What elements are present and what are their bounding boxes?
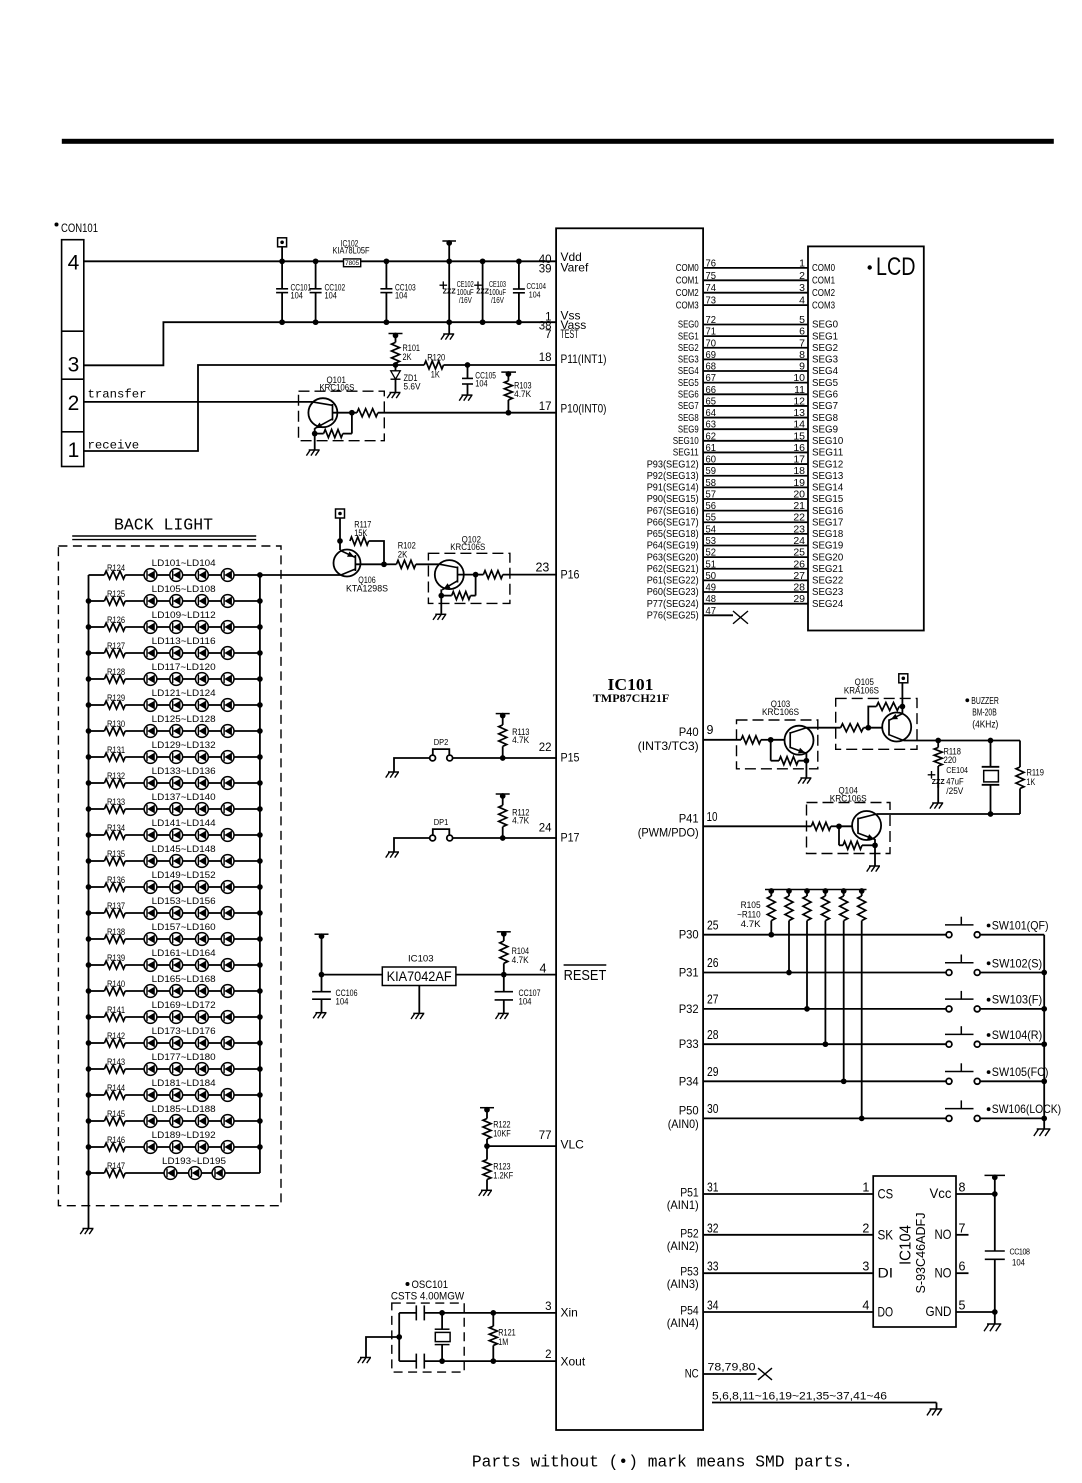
svg-text:1M: 1M (498, 1337, 508, 1347)
svg-text:VLC: VLC (561, 1138, 585, 1152)
svg-text:104: 104 (395, 291, 407, 301)
svg-text:NO: NO (935, 1264, 952, 1280)
svg-text:LD133~LD136: LD133~LD136 (152, 766, 216, 776)
svg-text:14: 14 (793, 419, 805, 431)
svg-text:SEG14: SEG14 (812, 482, 843, 494)
switch SW102(S) (945, 962, 974, 964)
svg-text:77: 77 (539, 1130, 552, 1142)
svg-text:3: 3 (68, 353, 80, 376)
wire P15 pin 22 (453, 757, 556, 759)
svg-text:R144: R144 (107, 1083, 125, 1093)
svg-text:31: 31 (707, 1181, 719, 1195)
resonator OSC101 CSTS 4.00MGW (406, 1282, 410, 1286)
svg-text:P34: P34 (679, 1074, 699, 1088)
svg-text:R142: R142 (107, 1031, 125, 1041)
resistor R113 4.7K pull-up (496, 713, 510, 715)
svg-text:2K: 2K (403, 352, 412, 362)
svg-text:COM0: COM0 (812, 262, 835, 274)
svg-text:SEG9: SEG9 (812, 423, 838, 435)
wire P11 to IC pin 18 (444, 364, 557, 366)
capacitor osc top (415, 1305, 417, 1320)
svg-text:SEG6: SEG6 (678, 388, 699, 400)
svg-text:SEG12: SEG12 (812, 458, 843, 470)
svg-text:R128: R128 (107, 667, 125, 677)
svg-text:SEG2: SEG2 (812, 342, 838, 354)
wire DP1 to ground (394, 838, 430, 852)
stub IC104 pin7 (956, 1234, 969, 1236)
svg-text:29: 29 (793, 593, 805, 605)
resistor R134 (89, 834, 105, 836)
svg-text:SEG22: SEG22 (812, 575, 843, 587)
svg-text:transfer: transfer (88, 388, 147, 402)
svg-text:R105: R105 (741, 900, 761, 910)
svg-text:COM2: COM2 (812, 287, 835, 299)
svg-text:GND: GND (926, 1303, 952, 1319)
svg-text:SEG3: SEG3 (678, 354, 699, 366)
svg-text:2: 2 (799, 270, 805, 282)
wire CC106 to IC103 (322, 974, 383, 976)
svg-text:TMP87CH21F: TMP87CH21F (593, 693, 670, 705)
backlight right bus (259, 575, 261, 1173)
svg-text:104: 104 (529, 290, 541, 299)
Vcc rail with capacitor CC108 (985, 1174, 1006, 1176)
svg-text:2K: 2K (398, 549, 408, 559)
svg-text:3: 3 (862, 1260, 869, 1274)
svg-text:68: 68 (706, 361, 717, 373)
svg-text:1: 1 (862, 1181, 869, 1195)
svg-text:SEG20: SEG20 (812, 551, 843, 563)
svg-text:LD161~LD164: LD161~LD164 (152, 948, 216, 958)
svg-text:R136: R136 (107, 875, 125, 885)
svg-text:P76(SEG25): P76(SEG25) (647, 610, 699, 622)
svg-text:LD109~LD112: LD109~LD112 (152, 610, 216, 620)
svg-text:73: 73 (706, 295, 717, 307)
svg-text:SEG2: SEG2 (678, 342, 699, 354)
resistor R130 (89, 730, 105, 732)
svg-text:R119: R119 (1027, 768, 1044, 778)
svg-text:SEG17: SEG17 (812, 516, 843, 528)
svg-text:COM3: COM3 (676, 299, 699, 311)
svg-text:P15: P15 (561, 751, 580, 765)
svg-text:53: 53 (706, 535, 717, 547)
svg-text:104: 104 (519, 996, 532, 1006)
svg-text:SEG23: SEG23 (812, 586, 843, 598)
svg-text:26: 26 (707, 956, 719, 970)
svg-text:LD117~LD120: LD117~LD120 (152, 662, 216, 672)
switch SW103(F) (945, 998, 974, 1000)
switch SW101(QF) (945, 924, 974, 926)
svg-text:6: 6 (799, 326, 805, 338)
transistor Q106 KTA1298S PNP (339, 541, 341, 550)
svg-text:49: 49 (706, 582, 717, 594)
svg-text:(PWM/PDO): (PWM/PDO) (638, 825, 699, 839)
svg-text:21: 21 (793, 500, 805, 512)
svg-text:KTA1298S: KTA1298S (346, 583, 388, 593)
svg-text:5: 5 (959, 1299, 966, 1313)
svg-text:SEG9: SEG9 (678, 423, 699, 435)
svg-text:64: 64 (706, 407, 717, 419)
wire Q105 collector to buzzer node (904, 740, 939, 742)
osc left rail to ground (398, 1313, 400, 1361)
svg-text:65: 65 (706, 395, 717, 407)
resistor R122 10KF (480, 1107, 494, 1109)
capacitor CC101 (281, 261, 283, 289)
svg-text:11: 11 (794, 384, 805, 396)
svg-text:P11(INT1): P11(INT1) (561, 352, 607, 366)
svg-text:(AIN0): (AIN0) (668, 1117, 699, 1131)
wire DP2 to ground (394, 758, 430, 772)
svg-text:P10(INT0): P10(INT0) (561, 402, 607, 416)
svg-text:P31: P31 (679, 966, 699, 980)
resistor R124 (89, 574, 105, 576)
svg-text:R139: R139 (107, 953, 125, 963)
svg-text:57: 57 (706, 488, 717, 500)
svg-text:DI: DI (878, 1265, 894, 1281)
resistor R143 (89, 1068, 105, 1070)
resistor R138 (89, 938, 105, 940)
resistor R103 4.7K pull-up (501, 371, 516, 373)
svg-text:IC101: IC101 (608, 675, 654, 694)
svg-text:LD177~LD180: LD177~LD180 (152, 1052, 216, 1062)
svg-text:59: 59 (706, 465, 717, 477)
svg-text:9: 9 (707, 723, 714, 737)
svg-text:R131: R131 (107, 745, 125, 755)
svg-text:LD141~LD144: LD141~LD144 (152, 818, 216, 828)
svg-text:R146: R146 (107, 1135, 125, 1145)
svg-text:R132: R132 (107, 771, 125, 781)
svg-text:NC: NC (685, 1367, 699, 1381)
svg-text:12: 12 (793, 395, 805, 407)
resistor R136 (89, 886, 105, 888)
resistor R127 (89, 652, 105, 654)
wire buzzer bottom bus (877, 813, 1020, 815)
svg-text:DO: DO (878, 1304, 894, 1320)
svg-text:23: 23 (535, 561, 549, 575)
wire IC104 GND (956, 1311, 995, 1313)
resistor Q101 base input from P10 (357, 409, 378, 417)
ground below Q102 (440, 596, 442, 614)
resistor Q105 base-emitter (868, 707, 876, 728)
svg-text:P32: P32 (679, 1002, 699, 1016)
svg-text:P50: P50 (679, 1103, 699, 1117)
capacitor CE103 electrolytic (480, 258, 486, 264)
svg-text:COM3: COM3 (812, 299, 835, 311)
svg-text:15K: 15K (354, 528, 367, 538)
svg-text:DP2: DP2 (434, 737, 449, 747)
svg-text:(AIN2): (AIN2) (667, 1239, 699, 1253)
resistor R112 4.7K pull-up (496, 793, 510, 795)
svg-text:KIA7042AF: KIA7042AF (387, 969, 452, 984)
svg-text:LD185~LD188: LD185~LD188 (152, 1104, 216, 1114)
wire LED supply row1 to Q106 collector (260, 574, 341, 576)
svg-text:62: 62 (706, 430, 717, 442)
resistor R132 (89, 782, 105, 784)
svg-text:R138: R138 (107, 927, 125, 937)
svg-text:ZZZ: ZZZ (476, 286, 489, 295)
switch DP2 (433, 749, 450, 755)
svg-text:7805: 7805 (345, 260, 359, 267)
svg-text:SEG11: SEG11 (673, 447, 699, 459)
svg-text:R134: R134 (107, 823, 125, 833)
svg-text:P63(SEG20): P63(SEG20) (647, 551, 699, 563)
svg-text:51: 51 (706, 558, 717, 570)
svg-text:BACK LIGHT: BACK LIGHT (114, 515, 213, 534)
svg-text:SEG11: SEG11 (812, 447, 843, 459)
svg-text:LD149~LD152: LD149~LD152 (152, 870, 216, 880)
svg-text:BM-20B: BM-20B (972, 707, 997, 718)
svg-text:74: 74 (706, 282, 717, 294)
svg-text:4.7K: 4.7K (512, 816, 529, 826)
svg-text:SW106(LOCK): SW106(LOCK) (992, 1102, 1061, 1116)
svg-text:P93(SEG12): P93(SEG12) (647, 458, 699, 470)
svg-text:/25V: /25V (946, 786, 963, 796)
svg-text:104: 104 (325, 291, 337, 301)
svg-text:7: 7 (959, 1221, 966, 1235)
svg-text:5,6,8,11~16,19~21,35~37,41~46: 5,6,8,11~16,19~21,35~37,41~46 (712, 1391, 887, 1403)
svg-text:LD193~LD195: LD193~LD195 (162, 1156, 226, 1166)
svg-text:R127: R127 (107, 641, 125, 651)
svg-text:SEG1: SEG1 (812, 330, 838, 342)
svg-text:18: 18 (793, 465, 805, 477)
svg-text:48: 48 (706, 593, 717, 605)
svg-text:30: 30 (707, 1102, 719, 1116)
svg-text:P33: P33 (679, 1037, 699, 1051)
svg-text:66: 66 (706, 384, 717, 396)
svg-text:Xout: Xout (561, 1355, 586, 1369)
svg-text:SEG4: SEG4 (812, 365, 838, 377)
svg-text:NO: NO (935, 1226, 952, 1242)
svg-text:27: 27 (793, 570, 805, 582)
svg-text:KRC106S: KRC106S (762, 707, 799, 717)
svg-text:COM0: COM0 (676, 262, 699, 274)
svg-text:28: 28 (707, 1028, 719, 1042)
svg-text:2: 2 (862, 1221, 869, 1235)
svg-text:39: 39 (539, 264, 552, 276)
svg-text:SEG18: SEG18 (812, 528, 843, 540)
svg-text:P65(SEG18): P65(SEG18) (647, 528, 699, 540)
svg-text:20: 20 (793, 488, 805, 500)
resistor R121 1M (490, 1310, 496, 1316)
svg-text:LD169~LD172: LD169~LD172 (152, 1000, 216, 1010)
svg-text:24: 24 (539, 823, 552, 835)
svg-text:76: 76 (706, 257, 717, 269)
resistor R135 (89, 860, 105, 862)
svg-text:TEST: TEST (561, 327, 579, 341)
svg-text:R141: R141 (107, 1005, 125, 1015)
stub IC104 pin6 (956, 1272, 969, 1274)
wire RESET to IC pin 4 (456, 974, 556, 976)
svg-text:LD137~LD140: LD137~LD140 (152, 792, 216, 802)
svg-text:71: 71 (706, 326, 717, 338)
buzzer BM-20B piezo (965, 698, 969, 702)
svg-text:R143: R143 (107, 1057, 125, 1067)
svg-text:24: 24 (793, 535, 805, 547)
svg-text:CE104: CE104 (946, 765, 968, 775)
svg-text:1: 1 (68, 439, 80, 462)
svg-text:LD101~LD104: LD101~LD104 (152, 558, 216, 568)
LCD COM wires (703, 267, 808, 269)
svg-text:1K: 1K (1027, 777, 1036, 787)
svg-text:P67(SEG16): P67(SEG16) (647, 505, 699, 517)
svg-text:LD173~LD176: LD173~LD176 (152, 1026, 216, 1036)
resistor R125 (89, 600, 105, 602)
capacitor CC105 (465, 362, 471, 368)
ground below Q103 (805, 761, 807, 778)
svg-text:3: 3 (545, 1301, 551, 1313)
wire Vss bus (84, 322, 556, 365)
svg-text:SW103(F): SW103(F) (992, 993, 1042, 1007)
svg-text:23: 23 (793, 523, 805, 535)
resistor R101 2K pull-up (389, 333, 403, 335)
capacitor CC102 (313, 258, 319, 264)
svg-text:72: 72 (706, 314, 717, 326)
svg-text:SEG21: SEG21 (812, 563, 843, 575)
svg-text:4: 4 (68, 252, 80, 275)
EEPROM IC104 S-93C46ADFJ (873, 1176, 956, 1327)
svg-text:4: 4 (862, 1299, 869, 1313)
ground below ZD1 (395, 379, 397, 392)
svg-text:COM1: COM1 (812, 275, 835, 287)
svg-text:SW104(R): SW104(R) (992, 1028, 1042, 1042)
wire R102 to Q102 (416, 563, 440, 565)
svg-text:10: 10 (793, 372, 805, 384)
svg-text:SEG5: SEG5 (678, 377, 699, 389)
svg-text:SEG5: SEG5 (812, 377, 838, 389)
capacitor CC106 (315, 933, 329, 935)
svg-text:56: 56 (706, 500, 717, 512)
svg-text:R147: R147 (107, 1161, 125, 1171)
svg-text:OSC101: OSC101 (412, 1279, 449, 1291)
svg-text:SK: SK (878, 1226, 894, 1242)
svg-text:SEG3: SEG3 (812, 354, 838, 366)
svg-text:LD105~LD108: LD105~LD108 (152, 584, 216, 594)
svg-text:RESET: RESET (564, 968, 607, 984)
svg-text:50: 50 (706, 570, 717, 582)
resistor R140 (89, 990, 105, 992)
svg-text:CC108: CC108 (1010, 1248, 1031, 1257)
resistor R123 1.2KF (486, 1146, 488, 1159)
svg-text:P61(SEG22): P61(SEG22) (647, 575, 699, 587)
svg-text:47uF: 47uF (946, 777, 964, 787)
svg-text:104: 104 (475, 379, 487, 389)
resistor R129 (89, 704, 105, 706)
wire Vdd rail from CON101 pin4 (84, 260, 556, 262)
resistor R102 2K (396, 560, 415, 568)
resistor R119 1K (1019, 741, 1021, 768)
svg-text:P91(SEG14): P91(SEG14) (647, 482, 699, 494)
wire P17 pin 24 (453, 837, 556, 839)
pin header square Q106 emitter supply (336, 509, 345, 518)
svg-text:SEG7: SEG7 (678, 400, 699, 412)
svg-text:63: 63 (706, 419, 717, 431)
svg-text:19: 19 (793, 477, 805, 489)
svg-text:R129: R129 (107, 693, 125, 703)
svg-text:KRC106S: KRC106S (450, 542, 485, 552)
svg-text:DP1: DP1 (434, 817, 449, 827)
svg-text:220: 220 (944, 755, 957, 765)
wire Xin pin 3 (424, 1312, 556, 1314)
svg-text:34: 34 (707, 1299, 719, 1313)
wire Q103 collector to Q105 (806, 727, 840, 729)
svg-text:SEG7: SEG7 (812, 400, 838, 412)
resistor R118 220 (937, 741, 939, 748)
svg-text:SEG0: SEG0 (678, 319, 699, 331)
svg-text:8: 8 (799, 349, 805, 361)
switch SW104(R) (945, 1033, 974, 1035)
svg-text:LD129~LD132: LD129~LD132 (152, 740, 216, 750)
wire Xout pin 2 (424, 1360, 556, 1362)
svg-text:18: 18 (539, 352, 552, 364)
svg-text:~R110: ~R110 (737, 910, 761, 920)
svg-text:ZZZ: ZZZ (443, 286, 456, 295)
svg-text:R124: R124 (107, 563, 125, 573)
svg-text:CSTS 4.00MGW: CSTS 4.00MGW (391, 1290, 465, 1302)
svg-text:KIA78L05F: KIA78L05F (333, 246, 370, 256)
svg-text:16: 16 (793, 442, 805, 454)
svg-text:5: 5 (799, 314, 805, 326)
svg-text:LD181~LD184: LD181~LD184 (152, 1078, 216, 1088)
svg-text:COM1: COM1 (676, 275, 699, 287)
svg-text:LD157~LD160: LD157~LD160 (152, 922, 216, 932)
svg-text:BUZZER: BUZZER (971, 696, 999, 707)
svg-text:(INT3/TC3): (INT3/TC3) (638, 739, 699, 753)
svg-text:SEG15: SEG15 (812, 493, 843, 505)
svg-text:54: 54 (706, 523, 717, 535)
pin header square Q105 emitter (901, 683, 903, 714)
svg-text:P40: P40 (679, 725, 699, 739)
svg-text:COM2: COM2 (676, 287, 699, 299)
svg-text:R126: R126 (107, 615, 125, 625)
svg-text:61: 61 (706, 442, 717, 454)
resistor R147 (89, 1172, 105, 1174)
backlight left bus (88, 575, 90, 1173)
svg-text:SEG10: SEG10 (673, 435, 699, 447)
switch common bus to ground (1043, 935, 1045, 1119)
backlight dashed enclosure (58, 546, 281, 1206)
svg-text:P30: P30 (679, 928, 699, 942)
ground below IC103 (418, 986, 420, 1013)
svg-text:R135: R135 (107, 849, 125, 859)
wire VLC pin 77 (487, 1145, 556, 1147)
svg-text:SW102(S): SW102(S) (992, 956, 1042, 970)
svg-text:Vcc: Vcc (930, 1185, 952, 1201)
backlight ground (88, 1173, 90, 1228)
svg-text:4.7K: 4.7K (514, 389, 531, 399)
switch SW106(LOCK) (945, 1108, 974, 1110)
svg-text:R137: R137 (107, 901, 125, 911)
resistor Q102 base input / wire to P16 pin 23 (483, 571, 502, 579)
svg-text:LD145~LD148: LD145~LD148 (152, 844, 216, 854)
svg-text:28: 28 (793, 582, 805, 594)
svg-text:P17: P17 (561, 831, 580, 845)
resistor R144 (89, 1094, 105, 1096)
svg-text:69: 69 (706, 349, 717, 361)
svg-text:104: 104 (336, 996, 349, 1006)
resistor R139 (89, 964, 105, 966)
wire IC104 Vcc to rail (956, 1193, 995, 1195)
svg-text:(AIN4): (AIN4) (667, 1316, 699, 1330)
svg-text:R145: R145 (107, 1109, 125, 1119)
svg-text:2: 2 (545, 1349, 551, 1361)
svg-text:9: 9 (799, 361, 805, 373)
capacitor CC103 (384, 258, 390, 264)
resistor R142 (89, 1042, 105, 1044)
svg-text:13: 13 (793, 407, 805, 419)
svg-text:P41: P41 (679, 811, 699, 825)
capacitor CC107 (503, 975, 505, 992)
svg-text:SEG10: SEG10 (812, 435, 843, 447)
svg-text:17: 17 (793, 454, 805, 466)
